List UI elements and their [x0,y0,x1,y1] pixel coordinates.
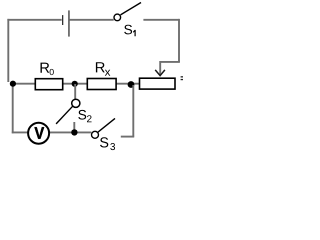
cropped marks at right edge [181,76,183,77]
switch S2 pivot circle [72,99,80,107]
rheostat box [140,78,176,89]
battery short plate (negative) [62,15,63,25]
label Rx_x (x) [105,70,111,76]
bottom wire left of S3 [12,131,92,133]
resistor R0 box [35,79,62,90]
wire battery to S1 [70,19,114,21]
switch S2 lever [56,106,73,124]
wire right rail [178,19,180,62]
wire S1 to top-right corner [143,19,179,21]
wire top-left from corner to battery [7,19,61,21]
switch S1 pivot circle [114,14,121,21]
label S3_S (S) [100,137,108,147]
wire stub from S2 down to bottom node [73,122,75,131]
wiper arrowhead chevron [155,70,165,76]
label S1_1 (1) [133,30,136,36]
label V_V (V) [35,127,45,139]
switch S3 lever [98,118,115,132]
wire wiper drop [159,61,161,75]
wire left rail upper [7,19,9,82]
label Rx_R (R) [96,62,105,72]
label S2_2 (2) [87,115,92,122]
battery long plate (positive) [68,10,69,36]
label R0_R (R) [41,63,50,73]
middle wire row [13,83,140,85]
label S2_S (S) [78,110,86,120]
node dot left rail [10,81,16,87]
node dot bottom [71,129,77,135]
wire S3 right contact [121,136,134,138]
wire vertical from node down to S3 [132,85,134,137]
node dot between Rx and rheostat [128,81,135,88]
resistor Rx box [87,79,116,90]
label S3_3 (3) [110,143,115,150]
switch S1 lever [121,3,142,15]
label R0_0 (0) [50,69,54,75]
wire stub from node down to S2 [74,84,76,100]
wire left rail lower [12,84,14,133]
voltmeter V [28,123,49,144]
label S1_S (S) [124,25,132,35]
wire jog to wiper [160,61,180,63]
node dot between R0 and Rx [72,81,78,87]
switch S3 pivot circle [92,131,99,138]
